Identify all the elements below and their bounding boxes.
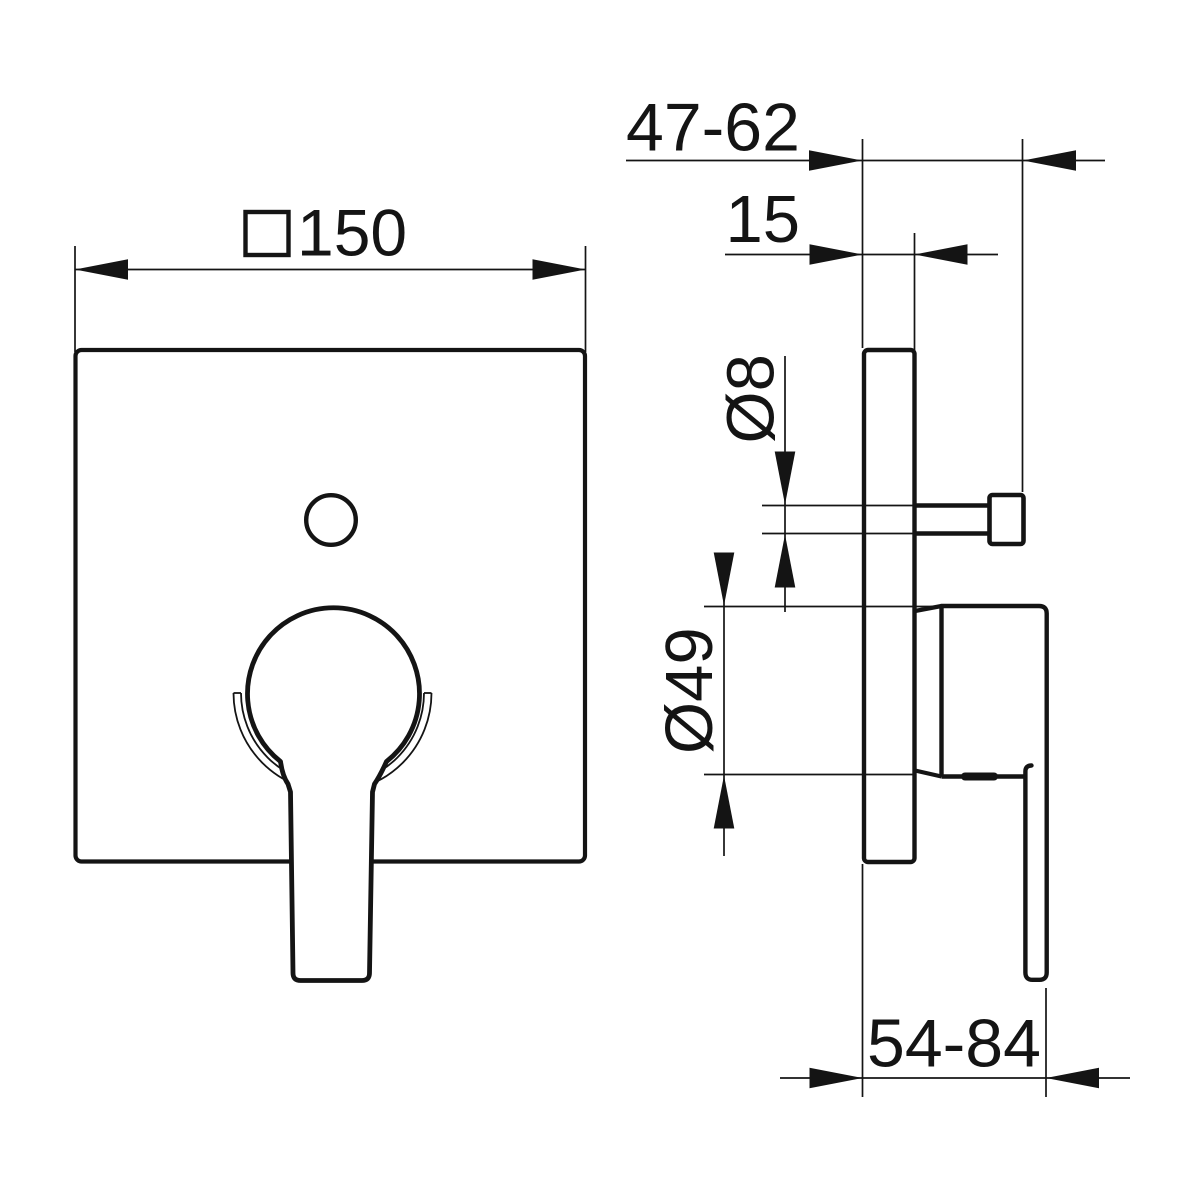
valve cylinder left end cap (939, 606, 943, 777)
screw head (990, 495, 1024, 544)
pivot lens detail on cylinder bottom (965, 773, 994, 781)
dim 15: right extension line (plate back face) (914, 233, 916, 503)
dim diam8: lower arrow (pointing up) (775, 535, 796, 588)
dimension square-150: left arrow (75, 259, 128, 280)
dim diam49: upper arrow (pointing down) (714, 553, 735, 606)
svg-text:150: 150 (297, 196, 407, 270)
escutcheon ring arc left cap (234, 692, 242, 694)
dim diam49: lower extension line (704, 774, 916, 776)
front wall plate (square escutcheon) (76, 350, 586, 862)
svg-text:Ø8: Ø8 (714, 354, 789, 443)
valve cylinder and lever outline (side) (942, 606, 1047, 980)
dimension square-150: left extension line (74, 246, 76, 352)
diverter button (small circle) (306, 495, 356, 545)
transition cone lower edge (915, 771, 942, 777)
dim 15: left arrow (810, 244, 863, 265)
handle knob and lever (front) (247, 608, 419, 981)
dim 54-84: right extension line (lever outer face) (1045, 988, 1047, 1097)
dim diam8: upper arrow (pointing down) (775, 452, 796, 505)
escutcheon ring outer arc (234, 693, 432, 792)
dim 47-62: left arrow (outside, pointing right) (809, 150, 862, 171)
dimension square-150: right extension line (585, 246, 587, 352)
dimension square-150: square symbol (246, 212, 289, 255)
svg-text:47-62: 47-62 (626, 90, 800, 166)
dim 54-84: right arrow (1046, 1068, 1099, 1089)
dim 47-62: dimension line (626, 160, 1105, 162)
dimension square-150: dimension line (75, 269, 586, 271)
dim 54-84: dimension line (780, 1077, 1130, 1079)
svg-text:54-84: 54-84 (867, 1006, 1041, 1082)
dim 54-84: left extension line (plate front face, below) (862, 864, 864, 1097)
dim diam8: vertical dimension line (784, 356, 786, 612)
svg-text:15: 15 (726, 182, 801, 257)
wall plate (side) (864, 350, 915, 862)
dim diam49: vertical dimension line (723, 553, 725, 856)
dim diam8: lower extension line through plate (762, 533, 916, 535)
dimension square-150: right arrow (533, 259, 586, 280)
dim 15: dimension line (725, 254, 998, 256)
dim diam49: lower arrow (pointing up) (714, 776, 735, 829)
dim 15: right arrow (915, 244, 968, 265)
escutcheon ring arc right cap (424, 692, 432, 694)
screw pin upper edge (916, 503, 989, 507)
dim diam49: upper extension line through plate (704, 606, 942, 608)
svg-text:Ø49: Ø49 (652, 627, 727, 754)
dim 47-62: left extension line (plate front face, above) (862, 139, 864, 348)
dim 54-84: left arrow (810, 1068, 863, 1089)
valve cylinder bottom edge (942, 774, 1026, 778)
dim diam8: upper extension line through plate (762, 505, 916, 507)
transition cone upper edge (915, 606, 942, 611)
dim 47-62: right arrow (outside, pointing left) (1023, 150, 1076, 171)
dim 47-62: right extension line (screw end) (1022, 139, 1024, 492)
screw pin lower edge (916, 531, 989, 535)
escutcheon ring inner arc (241, 693, 424, 785)
